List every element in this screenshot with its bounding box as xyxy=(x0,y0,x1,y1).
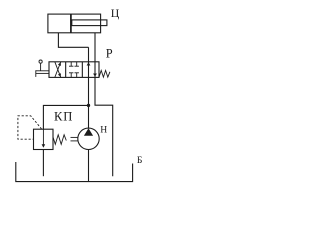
relief valve KP body xyxy=(34,129,54,149)
cylinder rod xyxy=(72,20,107,26)
valve lever actuator xyxy=(36,60,49,77)
wire relief valve drain to tank xyxy=(42,150,44,177)
valve position 3 flow arrows xyxy=(87,62,91,65)
wire pump suction to tank xyxy=(88,150,90,182)
wire cylinder left port to supply line xyxy=(58,33,88,48)
valve return spring xyxy=(99,70,110,77)
pump H (circle) xyxy=(78,128,99,149)
svg-text:КП: КП xyxy=(54,109,73,123)
valve position 2 closed ports xyxy=(69,62,79,78)
cylinder U (body) xyxy=(48,14,101,33)
node junction pump/valve/relief xyxy=(87,104,90,107)
valve divider 1 xyxy=(65,62,67,78)
pump drive shaft xyxy=(71,136,78,138)
valve position 1 crossed arrows xyxy=(55,62,61,78)
wire right flow line (cylinder right port down through valve to tank) xyxy=(95,33,113,177)
relief valve flow arrow xyxy=(42,129,44,145)
svg-text:Б: Б xyxy=(137,155,143,166)
cylinder piston xyxy=(70,14,72,33)
svg-text:Н: Н xyxy=(100,125,107,136)
relief valve pilot line (dashed) xyxy=(18,116,42,139)
valve divider 2 xyxy=(81,62,83,78)
svg-text:Ц: Ц xyxy=(111,6,120,20)
svg-text:Р: Р xyxy=(106,46,113,60)
pump flow triangle xyxy=(84,128,93,136)
wire left flow line (valve port A up to cylinder, down to pump) xyxy=(88,47,90,128)
wire junction to relief valve KP xyxy=(43,105,88,129)
tank B xyxy=(16,162,133,182)
directional valve P body xyxy=(49,62,99,78)
relief valve spring xyxy=(53,135,66,145)
